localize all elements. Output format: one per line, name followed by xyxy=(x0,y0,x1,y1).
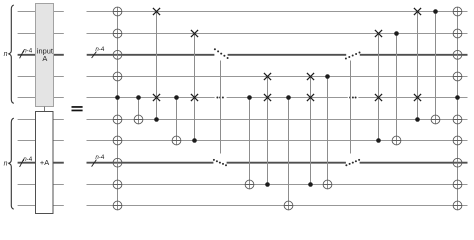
control dot on q5 (G6) xyxy=(247,95,252,100)
wire stubs q4 (left panel, top) xyxy=(18,76,64,78)
CNOT target (oplus) on q2 (G15) xyxy=(453,29,462,38)
control dot on q9 (G9) xyxy=(308,182,313,187)
control dot on q2 (G12) xyxy=(394,31,399,36)
box: +A adder xyxy=(36,112,54,214)
gate line G11 xyxy=(378,34,380,141)
CNOT target (oplus) on q9 (G15) xyxy=(453,180,462,189)
gate G5: Fredkin swap q2,q5 control q7 xyxy=(191,30,198,143)
swap cross on q5 (G11) xyxy=(375,94,382,101)
elided-gates line (left ...) xyxy=(220,61,222,154)
swap cross on q5 (G7) xyxy=(264,94,271,101)
gate line G1 xyxy=(117,7,119,210)
wire stubs q2 (left panel, top) xyxy=(18,33,64,35)
gate G10: CNOT control q4 target q9 xyxy=(323,74,332,189)
wire stubs q7 (left panel, bottom) xyxy=(18,140,64,142)
connector between boxes xyxy=(44,107,46,112)
gate G1: multi-target CNOT, control q5 xyxy=(113,7,122,210)
control dot on q5 (G1) xyxy=(115,95,120,100)
swap cross on q4 (G9) xyxy=(307,73,314,80)
wire q7 xyxy=(87,140,468,142)
CNOT target (oplus) on q9 (G10) xyxy=(323,180,332,189)
gate line G13 xyxy=(417,12,419,120)
gate line G12 xyxy=(396,34,398,145)
ellipsis dots on q3 (right break) xyxy=(345,52,361,60)
control dot on q5 (G15) xyxy=(455,95,460,100)
gate line G2 xyxy=(138,98,140,124)
CNOT target (oplus) on q10 (G8) xyxy=(284,201,293,210)
CNOT target (oplus) on q2 (G1) xyxy=(113,29,122,38)
wire q9 xyxy=(87,184,468,186)
swap cross on q2 (G5) xyxy=(191,30,198,37)
CNOT target (oplus) on q1 (G1) xyxy=(113,7,122,16)
bus wire stubs q3 (left panel, top) xyxy=(18,54,64,56)
control dot on q6 (G13) xyxy=(415,117,420,122)
swap cross on q1 (G3) xyxy=(153,8,160,15)
ellipsis dots on q3 (left break) xyxy=(214,48,229,59)
swap cross on q4 (G7) xyxy=(264,73,271,80)
wire stubs q9 (left panel, bottom) xyxy=(18,184,64,186)
CNOT target (oplus) on q9 (G1) xyxy=(113,180,122,189)
CNOT target (oplus) on q6 (G1) xyxy=(113,115,122,124)
wire stubs q5 (left panel, top) xyxy=(18,97,64,99)
svg-text:n: n xyxy=(4,161,8,168)
gate line G3 xyxy=(156,12,158,120)
svg-text:n-4: n-4 xyxy=(23,156,33,163)
wire q4 xyxy=(87,76,468,78)
CNOT target (oplus) on q6 (G15) xyxy=(453,115,462,124)
gate line G10 xyxy=(327,77,329,189)
control dot on q4 (G10) xyxy=(325,74,330,79)
CNOT target (oplus) on q1 (G15) xyxy=(453,7,462,16)
equals sign xyxy=(72,106,83,111)
bus slash n-4 on q3 xyxy=(92,52,97,58)
gate line G6 xyxy=(249,98,251,189)
swap cross on q5 (G3) xyxy=(153,94,160,101)
CNOT target (oplus) on q4 (G1) xyxy=(113,72,122,81)
ellipsis dots on q5 (right break) xyxy=(349,97,357,99)
control dot on q9 (G7) xyxy=(265,182,270,187)
CNOT target (oplus) on q7 (G15) xyxy=(453,136,462,145)
wire stubs q1 (left panel, top) xyxy=(18,11,64,13)
CNOT target (oplus) on q4 (G15) xyxy=(453,72,462,81)
bus wire q8 (broken, with continuation dots) xyxy=(87,162,468,164)
CNOT target (oplus) on q9 (G6) xyxy=(245,180,254,189)
svg-text:n: n xyxy=(4,51,8,58)
bus wire stubs q8 (left panel, bottom) xyxy=(18,162,64,164)
gate G4: CNOT control q5 target q7 xyxy=(172,95,181,145)
control dot on q5 (G2) xyxy=(136,95,141,100)
svg-text:n-4: n-4 xyxy=(95,154,105,161)
swap cross on q5 (G9) xyxy=(307,94,314,101)
CNOT target (oplus) on q8 (G15) xyxy=(453,158,462,167)
gate G9: Fredkin swap q4,q5 control q9 xyxy=(307,73,314,187)
CNOT target (oplus) on q6 (G14) xyxy=(431,115,440,124)
wire stubs q10 (left panel, bottom) xyxy=(18,205,64,207)
brace bottom-left (n qubits) xyxy=(8,118,13,209)
gate G11: Fredkin swap q2,q5 control q7 xyxy=(375,30,382,143)
CNOT target (oplus) on q10 (G15) xyxy=(453,201,462,210)
box: input A register xyxy=(36,4,54,107)
CNOT target (oplus) on q10 (G1) xyxy=(113,201,122,210)
wire q10 xyxy=(87,205,468,207)
gate G14: CNOT control q1 target q6 xyxy=(431,9,440,124)
gate G3: Fredkin swap q1,q5 control q6 xyxy=(153,8,160,122)
CNOT target (oplus) on q3 (G15) xyxy=(453,50,462,59)
gate G12: CNOT control q2 target q7 xyxy=(392,31,401,145)
bus slash n-4 (left panel, bottom) xyxy=(20,159,24,167)
ellipsis dots on q8 (left break) xyxy=(213,159,227,166)
swap cross on q5 (G13) xyxy=(414,94,421,101)
gate line G4 xyxy=(176,98,178,145)
bus slash n-4 (left panel, top) xyxy=(20,50,24,58)
gate G2: CNOT control q5 target q6 xyxy=(134,95,143,124)
CNOT target (oplus) on q3 (G1) xyxy=(113,50,122,59)
CNOT target (oplus) on q8 (G1) xyxy=(113,158,122,167)
wire q1 xyxy=(87,11,468,13)
swap cross on q1 (G13) xyxy=(414,8,421,15)
wire q6 xyxy=(87,119,468,121)
CNOT target (oplus) on q6 (G2) xyxy=(134,115,143,124)
gate G7: Fredkin swap q4,q5 control q9 xyxy=(264,73,271,187)
CNOT target (oplus) on q7 (G1) xyxy=(113,136,122,145)
gate G6: CNOT control q5 target q9 xyxy=(245,95,254,189)
gate line G9 xyxy=(310,77,312,185)
CNOT target (oplus) on q7 (G4) xyxy=(172,136,181,145)
bus wire q3 (broken, with continuation dots) xyxy=(87,54,468,56)
ellipsis dots on q8 (right break) xyxy=(345,159,360,166)
gate G13: Fredkin swap q1,q5 control q6 xyxy=(414,8,421,122)
svg-text:+A: +A xyxy=(40,158,49,167)
swap cross on q2 (G11) xyxy=(375,30,382,37)
gate line G5 xyxy=(194,34,196,141)
control dot on q5 (G4) xyxy=(174,95,179,100)
ellipsis dots on q5 (left break) xyxy=(216,97,224,99)
wire q2 xyxy=(87,33,468,35)
gate G8: CNOT control q5 target q10 xyxy=(284,95,293,210)
gate line G14 xyxy=(435,12,437,124)
wire stubs q6 (left panel, bottom) xyxy=(18,119,64,121)
brace top-left (n qubits) xyxy=(8,5,13,103)
wire q5 (broken, with continuation dots) xyxy=(87,97,468,99)
elided-gates line (right ...) xyxy=(350,61,352,154)
control dot on q5 (G8) xyxy=(286,95,291,100)
gate line G15 xyxy=(457,7,459,210)
gate line G7 xyxy=(267,77,269,185)
swap cross on q5 (G5) xyxy=(191,94,198,101)
svg-text:A: A xyxy=(42,54,47,63)
CNOT target (oplus) on q7 (G12) xyxy=(392,136,401,145)
control dot on q1 (G14) xyxy=(433,9,438,14)
control dot on q7 (G5) xyxy=(192,138,197,143)
control dot on q7 (G11) xyxy=(376,138,381,143)
svg-text:n-4: n-4 xyxy=(95,46,105,53)
svg-text:n-4: n-4 xyxy=(23,47,33,54)
gate G15: multi-target CNOT, control q5 xyxy=(453,7,462,210)
gate line G8 xyxy=(288,98,290,210)
bus slash n-4 on q8 xyxy=(92,160,97,167)
control dot on q6 (G3) xyxy=(154,117,159,122)
